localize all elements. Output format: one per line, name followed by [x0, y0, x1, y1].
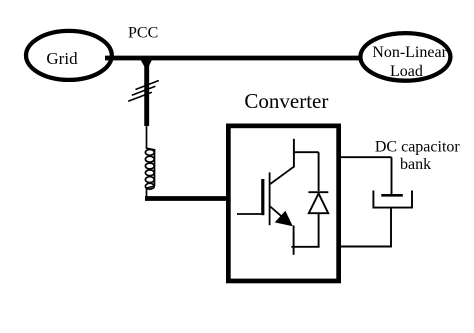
inductor L coil: [145, 148, 154, 198]
transistor Q1 (IGBT): [237, 139, 294, 225]
wire bottom branch: [291, 246, 319, 248]
wire below capacitor: [390, 208, 392, 247]
svg-text:Grid: Grid: [46, 49, 78, 68]
wire diode anode lead: [318, 213, 320, 247]
converter box: [228, 126, 338, 281]
wire to converter: [145, 196, 228, 201]
gate lead: [237, 213, 261, 215]
emitter diagonal: [270, 207, 281, 217]
wire vertical feeder from PCC: [144, 58, 149, 126]
body bar: [269, 172, 271, 225]
collector diagonal: [270, 167, 294, 184]
label DC capacitor bank: [375, 139, 461, 173]
wire top branch to diode: [293, 151, 319, 153]
wire bottom exit: [339, 246, 392, 248]
diode D1: [308, 192, 328, 213]
wire thin to inductor: [146, 126, 148, 149]
wire top exit to DC bank: [339, 156, 392, 158]
three-phase slash marks: [128, 81, 159, 102]
non-linear load ellipse: [360, 33, 450, 81]
svg-text:Non-Linear: Non-Linear: [372, 44, 447, 61]
emitter vertical: [293, 226, 295, 255]
collector stub: [293, 139, 295, 168]
wire diode cathode lead: [318, 152, 320, 191]
svg-text:bank: bank: [400, 156, 431, 173]
grid source ellipse: [26, 31, 112, 80]
svg-text:Load: Load: [390, 63, 423, 80]
gate bar: [261, 179, 264, 215]
wire bus from Grid to Non-Linear Load: [105, 56, 360, 61]
emitter arrowhead: [275, 211, 293, 226]
junction at PCC: [140, 59, 153, 71]
svg-text:PCC: PCC: [128, 25, 158, 42]
svg-text:Converter: Converter: [244, 89, 328, 113]
svg-text:DC capacitor: DC capacitor: [375, 139, 461, 156]
wire down to capacitor: [391, 157, 393, 195]
label Non-Linear Load: [372, 44, 447, 80]
capacitor C (DC bank): [373, 191, 412, 208]
